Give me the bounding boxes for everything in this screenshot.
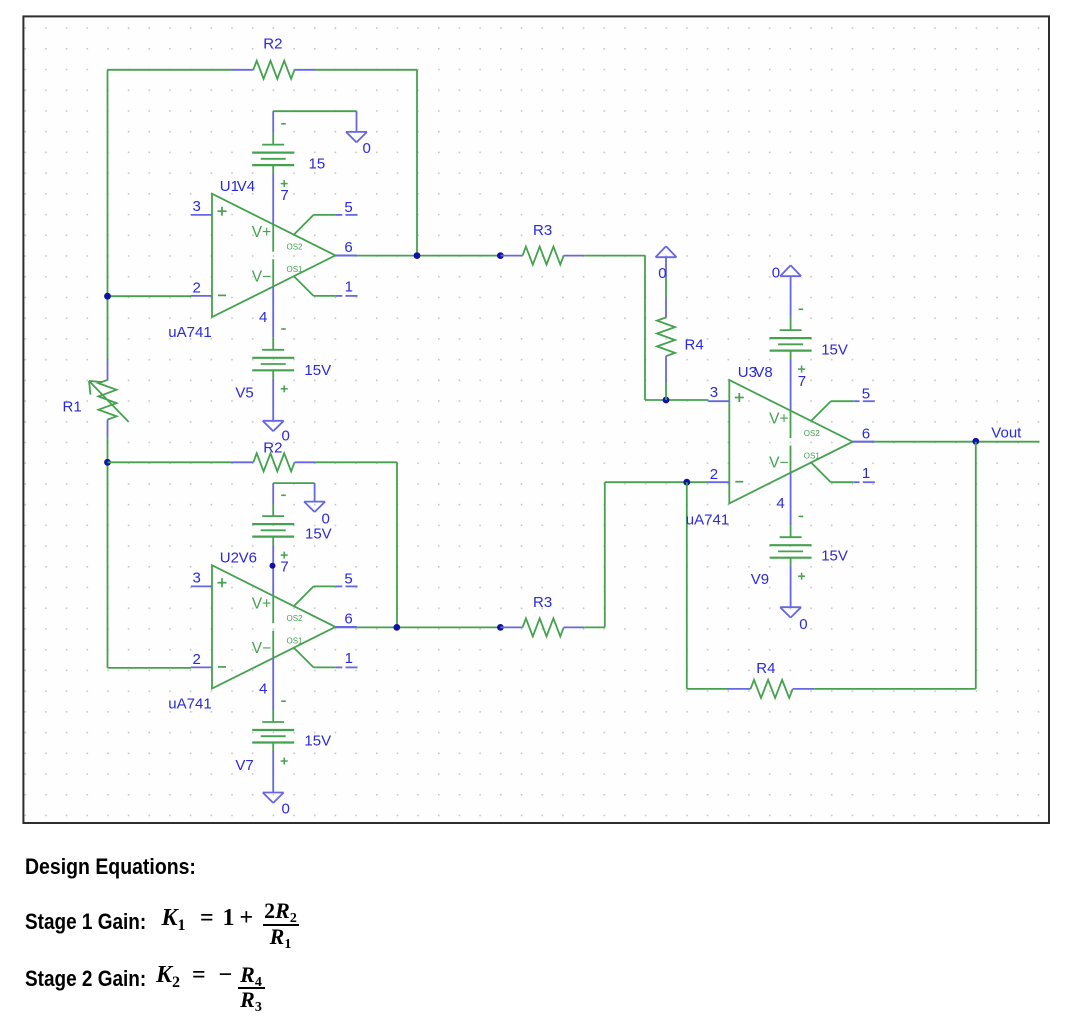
svg-text:15V: 15V [821, 342, 848, 359]
wire [108, 667, 192, 669]
svg-text:OS2: OS2 [804, 429, 821, 438]
svg-text:OS1: OS1 [287, 637, 304, 646]
svg-text:uA741: uA741 [168, 324, 211, 341]
battery V8 (15V) [770, 309, 812, 410]
svg-text:1: 1 [345, 279, 353, 296]
junction node (feedback/out U1) [414, 252, 421, 259]
battery V6 (15V) [252, 483, 294, 596]
heading Design Equations [25, 854, 196, 880]
svg-text:4: 4 [259, 309, 267, 326]
svg-text:V9: V9 [751, 571, 769, 588]
svg-text:0: 0 [799, 616, 807, 633]
svg-text:4: 4 [259, 680, 267, 697]
wire [686, 482, 688, 689]
svg-text:5: 5 [344, 199, 352, 216]
junction node (R2 fb/out U2) [393, 624, 400, 631]
svg-text:uA741: uA741 [168, 696, 211, 713]
wire [107, 438, 109, 668]
svg-text:R1: R1 [63, 399, 82, 416]
wire [357, 255, 501, 257]
wire [605, 481, 709, 483]
svg-text:6: 6 [344, 239, 352, 256]
equation Stage 2 Gain [25, 966, 146, 992]
junction node (out U2/R3) [497, 624, 504, 631]
op-amp U1 [191, 194, 358, 317]
svg-text:0: 0 [772, 265, 780, 282]
svg-text:2: 2 [193, 280, 201, 297]
svg-text:15V: 15V [305, 525, 332, 542]
svg-text:3: 3 [710, 384, 718, 401]
resistor R3 (stage2) [500, 618, 584, 636]
wire [335, 255, 357, 257]
resistor R1 (variable) [89, 360, 129, 438]
U1 pin labels [193, 187, 353, 326]
wire [396, 462, 398, 627]
ground 0 (V9) [780, 607, 801, 617]
svg-text:V4: V4 [237, 178, 255, 195]
svg-text:0: 0 [282, 801, 290, 818]
ground 0 (R4 top, arrow) [656, 246, 677, 277]
svg-text:uA741: uA741 [686, 511, 729, 528]
svg-text:V8: V8 [754, 364, 772, 381]
svg-text:V+: V+ [252, 224, 271, 241]
resistor R2 (stage2 feedback) [232, 453, 316, 471]
svg-text:1: 1 [862, 465, 870, 482]
wire [108, 69, 232, 71]
wire [975, 442, 977, 689]
junction node (R4/pin3 U3) [663, 397, 670, 404]
wire [853, 441, 875, 443]
wire [357, 626, 501, 628]
junction node (R2/R1/pin2) [104, 293, 111, 300]
battery V9 (15V) [770, 473, 812, 607]
svg-text:OS2: OS2 [287, 243, 304, 252]
svg-text:V7: V7 [235, 757, 253, 774]
equation Stage 1 Gain [25, 909, 146, 935]
resistor R4 (vertical) [657, 298, 675, 382]
battery V5 (15V) [252, 287, 294, 421]
wire [687, 688, 727, 690]
svg-text:V−: V− [769, 455, 788, 472]
svg-text:15V: 15V [304, 733, 331, 750]
wire [814, 688, 976, 690]
wire [108, 461, 232, 463]
junction node (R1/R2 stage2) [104, 459, 111, 466]
svg-text:V+: V+ [769, 410, 788, 427]
svg-text:R2: R2 [263, 36, 282, 53]
svg-text:2: 2 [710, 466, 718, 483]
wire [665, 383, 667, 401]
svg-text:R3: R3 [533, 594, 552, 611]
wire [644, 256, 646, 400]
svg-text:U1: U1 [220, 178, 239, 195]
battery V7 (15V) [252, 658, 294, 793]
ground 0 (V7) [263, 793, 284, 803]
op-amp U3 [708, 380, 875, 503]
svg-text:OS1: OS1 [804, 451, 821, 460]
svg-text:7: 7 [280, 187, 288, 204]
svg-text:Vout: Vout [991, 424, 1022, 441]
svg-text:R4: R4 [756, 660, 775, 677]
ground 0 (V4) [346, 111, 367, 142]
wire [645, 399, 708, 401]
svg-text:U2: U2 [220, 549, 239, 566]
wire [315, 461, 397, 463]
svg-text:6: 6 [344, 611, 352, 628]
svg-text:15V: 15V [821, 547, 848, 564]
svg-text:3: 3 [193, 569, 201, 586]
svg-text:R4: R4 [685, 337, 704, 354]
wire [108, 295, 192, 297]
wire [584, 626, 605, 628]
junction node Vout [972, 438, 979, 445]
U3 pin labels [710, 373, 870, 512]
wire [416, 70, 418, 256]
ground 0 (V8, arrow) [780, 265, 801, 317]
svg-text:OS2: OS2 [287, 614, 304, 623]
op-amp U2 [191, 565, 358, 688]
svg-text:4: 4 [776, 495, 784, 512]
schematic border frame [23, 16, 1049, 823]
svg-text:V−: V− [252, 640, 271, 657]
wire [273, 110, 356, 112]
wire [584, 255, 645, 257]
U2 pin labels [193, 558, 353, 697]
svg-text:1: 1 [345, 650, 353, 667]
svg-text:V−: V− [252, 268, 271, 285]
wire [273, 482, 314, 484]
wire [874, 441, 1039, 443]
wire [335, 626, 357, 628]
svg-text:V6: V6 [239, 549, 257, 566]
svg-text:15V: 15V [304, 362, 331, 379]
svg-text:5: 5 [862, 385, 870, 402]
wire [315, 69, 417, 71]
wire [665, 277, 667, 298]
svg-text:2: 2 [193, 651, 201, 668]
svg-text:R2: R2 [263, 440, 282, 457]
svg-text:6: 6 [862, 425, 870, 442]
svg-text:0: 0 [363, 140, 371, 157]
svg-text:15: 15 [309, 156, 326, 173]
wire [604, 482, 606, 627]
svg-text:7: 7 [798, 373, 806, 390]
svg-text:7: 7 [280, 558, 288, 575]
svg-text:V+: V+ [252, 596, 271, 613]
svg-text:V5: V5 [235, 385, 253, 402]
junction node (V+ U2) [270, 563, 276, 569]
resistor R3 [500, 247, 584, 265]
svg-text:OS1: OS1 [287, 265, 304, 274]
resistor R4 (feedback) [727, 680, 814, 698]
junction node (pin2 U3/feedback) [683, 479, 690, 486]
svg-text:0: 0 [282, 428, 290, 445]
ground 0 (V5) [263, 421, 284, 431]
svg-text:3: 3 [193, 198, 201, 215]
wire [107, 70, 109, 360]
junction node (out U1/R3) [497, 252, 504, 259]
svg-text:5: 5 [344, 571, 352, 588]
resistor R2 [232, 61, 316, 79]
ground 0 (V6) [304, 483, 325, 512]
battery V4 (15V) [252, 111, 294, 224]
svg-text:R3: R3 [533, 222, 552, 239]
